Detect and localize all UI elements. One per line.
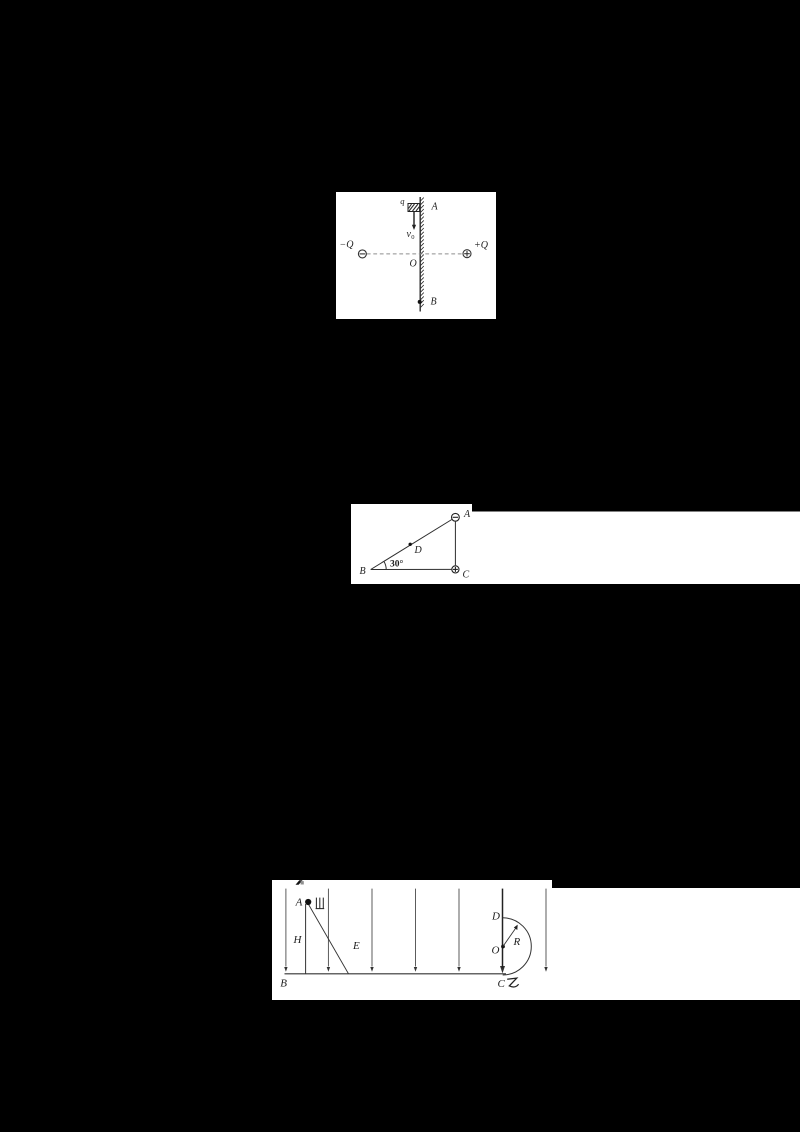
figure 1: charge q on hatched rod between -Q and +Q xyxy=(336,192,496,319)
svg-text:30°: 30° xyxy=(390,559,404,570)
svg-text:0: 0 xyxy=(411,234,414,241)
svg-text:H: H xyxy=(293,934,303,946)
ball A dot xyxy=(305,899,311,905)
dashed line -Q..+Q xyxy=(367,253,463,255)
svg-text:D: D xyxy=(414,545,423,556)
arrow v0 xyxy=(413,212,415,226)
figure 2: triangle B-A-C with 30 degrees, charges at A and C xyxy=(351,504,800,584)
field line 7 xyxy=(545,889,547,967)
svg-text:A: A xyxy=(295,897,303,909)
ground line xyxy=(285,973,507,975)
svg-text:B: B xyxy=(360,566,366,577)
rod AB (vertical wall line) xyxy=(419,197,421,312)
figure 3: uniform field E above ground BC with semicircle at C xyxy=(272,880,800,1000)
svg-text:D: D xyxy=(491,911,500,923)
angle arc 30 deg xyxy=(384,561,386,569)
semicircle xyxy=(503,918,532,975)
torn mark at top xyxy=(296,880,303,885)
side BC xyxy=(371,568,452,570)
svg-text:C: C xyxy=(498,978,506,990)
side AC xyxy=(454,522,456,566)
svg-text:E: E xyxy=(352,940,360,952)
field line 1 xyxy=(285,889,287,967)
svg-text:C: C xyxy=(463,570,470,581)
string H line xyxy=(305,904,307,974)
svg-text:A: A xyxy=(431,202,439,213)
rod hatching xyxy=(421,198,424,308)
side BA (hypotenuse) xyxy=(371,520,452,570)
charge A circle (minus) xyxy=(452,513,460,521)
paper background (with top step at x=280) xyxy=(272,880,800,1000)
point D dot xyxy=(409,543,412,546)
glyph after C xyxy=(507,978,518,987)
svg-text:O: O xyxy=(410,259,417,270)
svg-text:−Q: −Q xyxy=(340,240,355,251)
svg-text:+Q: +Q xyxy=(474,240,489,251)
svg-text:R: R xyxy=(513,936,521,948)
charge +Q circle xyxy=(463,250,471,258)
radius arrow xyxy=(503,928,516,947)
glyph next to A xyxy=(316,898,325,909)
svg-text:A: A xyxy=(463,509,471,520)
paper background (with top-right notch step) xyxy=(351,504,800,584)
field arrowheads xyxy=(284,967,287,972)
point B dot xyxy=(418,300,422,304)
field line 4 xyxy=(415,889,417,967)
charge -Q circle xyxy=(358,250,366,258)
svg-text:q: q xyxy=(400,196,405,206)
field line 3 xyxy=(371,889,373,967)
center O dot xyxy=(501,945,505,949)
field line 5 xyxy=(458,889,460,967)
paper background xyxy=(336,192,496,319)
field line 2 xyxy=(327,889,329,967)
charge C circle (plus) xyxy=(452,566,459,573)
svg-text:B: B xyxy=(280,978,287,990)
trajectory diagonal xyxy=(309,905,349,974)
field line 6 (diameter line D-O-C) xyxy=(502,889,504,968)
block q xyxy=(408,204,420,212)
svg-text:B: B xyxy=(431,297,437,308)
svg-text:O: O xyxy=(492,945,500,957)
